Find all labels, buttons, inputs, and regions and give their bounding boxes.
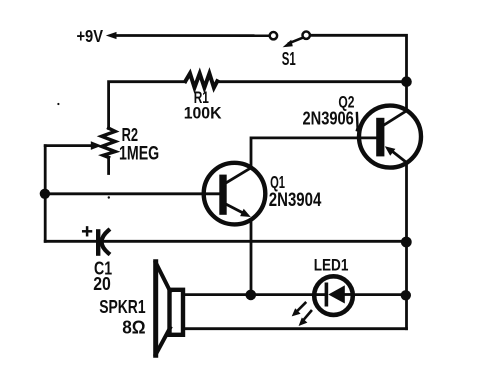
svg-text:1MEG: 1MEG — [119, 143, 159, 164]
switch S1 — [270, 32, 310, 69]
wire speaker top terminal / LED row — [184, 293, 314, 296]
svg-text:R2: R2 — [122, 125, 139, 145]
svg-text:8Ω: 8Ω — [122, 317, 146, 338]
wire speaker bottom terminal — [184, 327, 407, 330]
wire right rail upper (dot to Q2 collector) — [405, 82, 408, 111]
LED light-emission arrows — [292, 303, 311, 326]
svg-text:+9V: +9V — [77, 26, 104, 46]
node junction dot right lower — [401, 290, 411, 300]
svg-text:LED1: LED1 — [314, 257, 349, 275]
node junction dot left — [40, 189, 50, 199]
resistor R2 (rheostat) — [102, 125, 160, 174]
transistor Q1 — [204, 163, 322, 225]
wire second row left segment — [109, 82, 186, 129]
svg-text:2N3904: 2N3904 — [269, 190, 322, 211]
wire R1 to right rail — [217, 80, 407, 83]
svg-text:SPKR1: SPKR1 — [99, 296, 145, 317]
svg-text:20: 20 — [93, 273, 111, 294]
wire Q1 base — [45, 192, 219, 195]
svg-text:100K: 100K — [184, 105, 222, 123]
capacitor C1 — [45, 227, 406, 293]
wiper arrow of R2 — [45, 141, 102, 150]
node junction dot right middle — [401, 237, 412, 248]
resistor R1 — [185, 73, 217, 87]
node junction dot at speaker/Q1 emitter — [246, 290, 257, 301]
svg-text:2N3906: 2N3906 — [303, 108, 354, 129]
svg-text:S1: S1 — [282, 48, 296, 69]
svg-text:Q1: Q1 — [270, 172, 285, 192]
transistor Q2 — [303, 92, 422, 167]
speaker SPKR1 — [99, 262, 183, 355]
LED LED1 — [314, 257, 353, 315]
wire top rail with arrowhead to +9V — [106, 32, 269, 39]
stray speck — [57, 103, 59, 105]
wire Q1 collector to Q2 base — [251, 138, 376, 168]
node junction dot top-right — [401, 76, 412, 87]
wire S1 to right rail corner — [311, 35, 407, 81]
stray mark below R2 lead — [108, 196, 110, 198]
wire left vertical from wiper down — [44, 146, 47, 242]
wire Q1 emitter down — [250, 220, 253, 295]
wire right rail lower (Q2 emitter down) — [405, 163, 408, 329]
